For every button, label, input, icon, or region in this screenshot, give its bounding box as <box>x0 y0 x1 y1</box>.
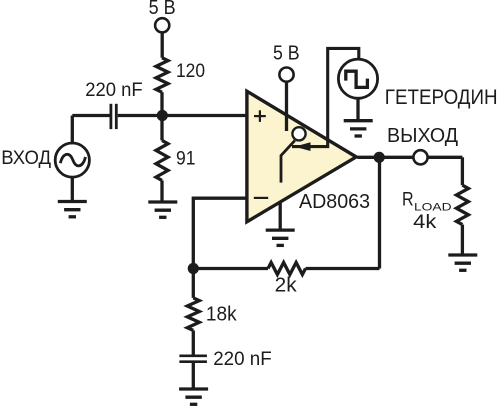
ground (RLOAD) <box>448 255 477 270</box>
svg-text:120: 120 <box>176 60 205 82</box>
wire source left to C1 <box>72 114 109 117</box>
wire op-amp minus input to node B <box>193 198 246 268</box>
ground (oscillator) <box>344 121 373 136</box>
wire feedback right of R3 <box>306 267 380 270</box>
terminal 5V top left <box>155 18 169 32</box>
terminal output <box>413 150 427 164</box>
ground (input source) <box>58 202 87 217</box>
resistor R4 18k <box>187 298 199 331</box>
capacitor C1 220 nF <box>111 104 116 129</box>
wire feedback left of R3 to node B <box>193 267 268 270</box>
wire RLOAD to ground <box>461 225 464 254</box>
wire op-amp to ground <box>279 203 282 230</box>
svg-text:ГЕТЕРОДИН: ГЕТЕРОДИН <box>385 86 498 109</box>
svg-text:18k: 18k <box>206 304 238 326</box>
node B junction dot <box>188 263 199 274</box>
wire R1 to node A <box>160 92 163 115</box>
op-amp plus input symbol <box>254 110 266 122</box>
wire node A to R2 <box>160 116 163 141</box>
svg-text:R: R <box>402 190 414 211</box>
wire oscillator to disable pin with loop <box>292 48 359 146</box>
wire C2 to ground <box>192 363 195 388</box>
svg-text:5 В: 5 В <box>273 43 300 65</box>
svg-text:ВЫХОД: ВЫХОД <box>387 124 458 147</box>
svg-text:220 nF: 220 nF <box>213 348 272 370</box>
wire 5V supply into op-amp <box>285 82 288 131</box>
switch lever <box>281 141 295 183</box>
svg-text:AD8063: AD8063 <box>299 190 370 213</box>
svg-text:ВХОД: ВХОД <box>1 148 51 169</box>
op-amp U1 body <box>247 91 356 222</box>
wire R4 to C2 <box>192 330 195 354</box>
resistor R2 91 <box>156 140 168 180</box>
capacitor C2 220 nF <box>179 356 207 362</box>
resistor RLOAD 4k <box>456 185 468 224</box>
svg-text:2k: 2k <box>275 274 298 296</box>
wire oscillator to ground <box>356 98 359 120</box>
wire load corner down to RLOAD <box>461 157 464 185</box>
svg-text:91: 91 <box>176 147 196 169</box>
ground (op-amp) <box>266 230 295 245</box>
terminal 5V op-amp <box>279 68 293 82</box>
resistor R1 120 <box>156 58 168 92</box>
wire R2 to ground <box>160 180 163 200</box>
node output junction dot <box>374 152 385 163</box>
svg-text:5 В: 5 В <box>149 0 176 19</box>
source V1 sine (input) <box>55 143 89 177</box>
node A junction dot <box>157 110 168 121</box>
oscillator G1 square-wave source <box>338 59 377 98</box>
resistor R3 2k <box>268 263 306 275</box>
ground (R2 91) <box>148 202 177 217</box>
wire feedback from output node down <box>378 157 381 268</box>
wire top supply to R1 <box>161 33 164 58</box>
wire C1 to node A and op-amp plus input <box>118 114 246 117</box>
wire source to ground <box>71 177 74 200</box>
op-amp minus input symbol <box>254 197 268 199</box>
svg-text:4k: 4k <box>413 211 436 233</box>
wire node B down to R4 <box>192 269 195 298</box>
arrow head on oscillator wire <box>295 142 311 151</box>
wire input source up <box>71 116 74 144</box>
svg-text:220 nF: 220 nF <box>85 79 142 101</box>
wire op-amp output to terminal and load <box>357 156 462 159</box>
switch circle inside op-amp <box>292 127 305 140</box>
ground (C2 bottom) <box>179 389 208 404</box>
